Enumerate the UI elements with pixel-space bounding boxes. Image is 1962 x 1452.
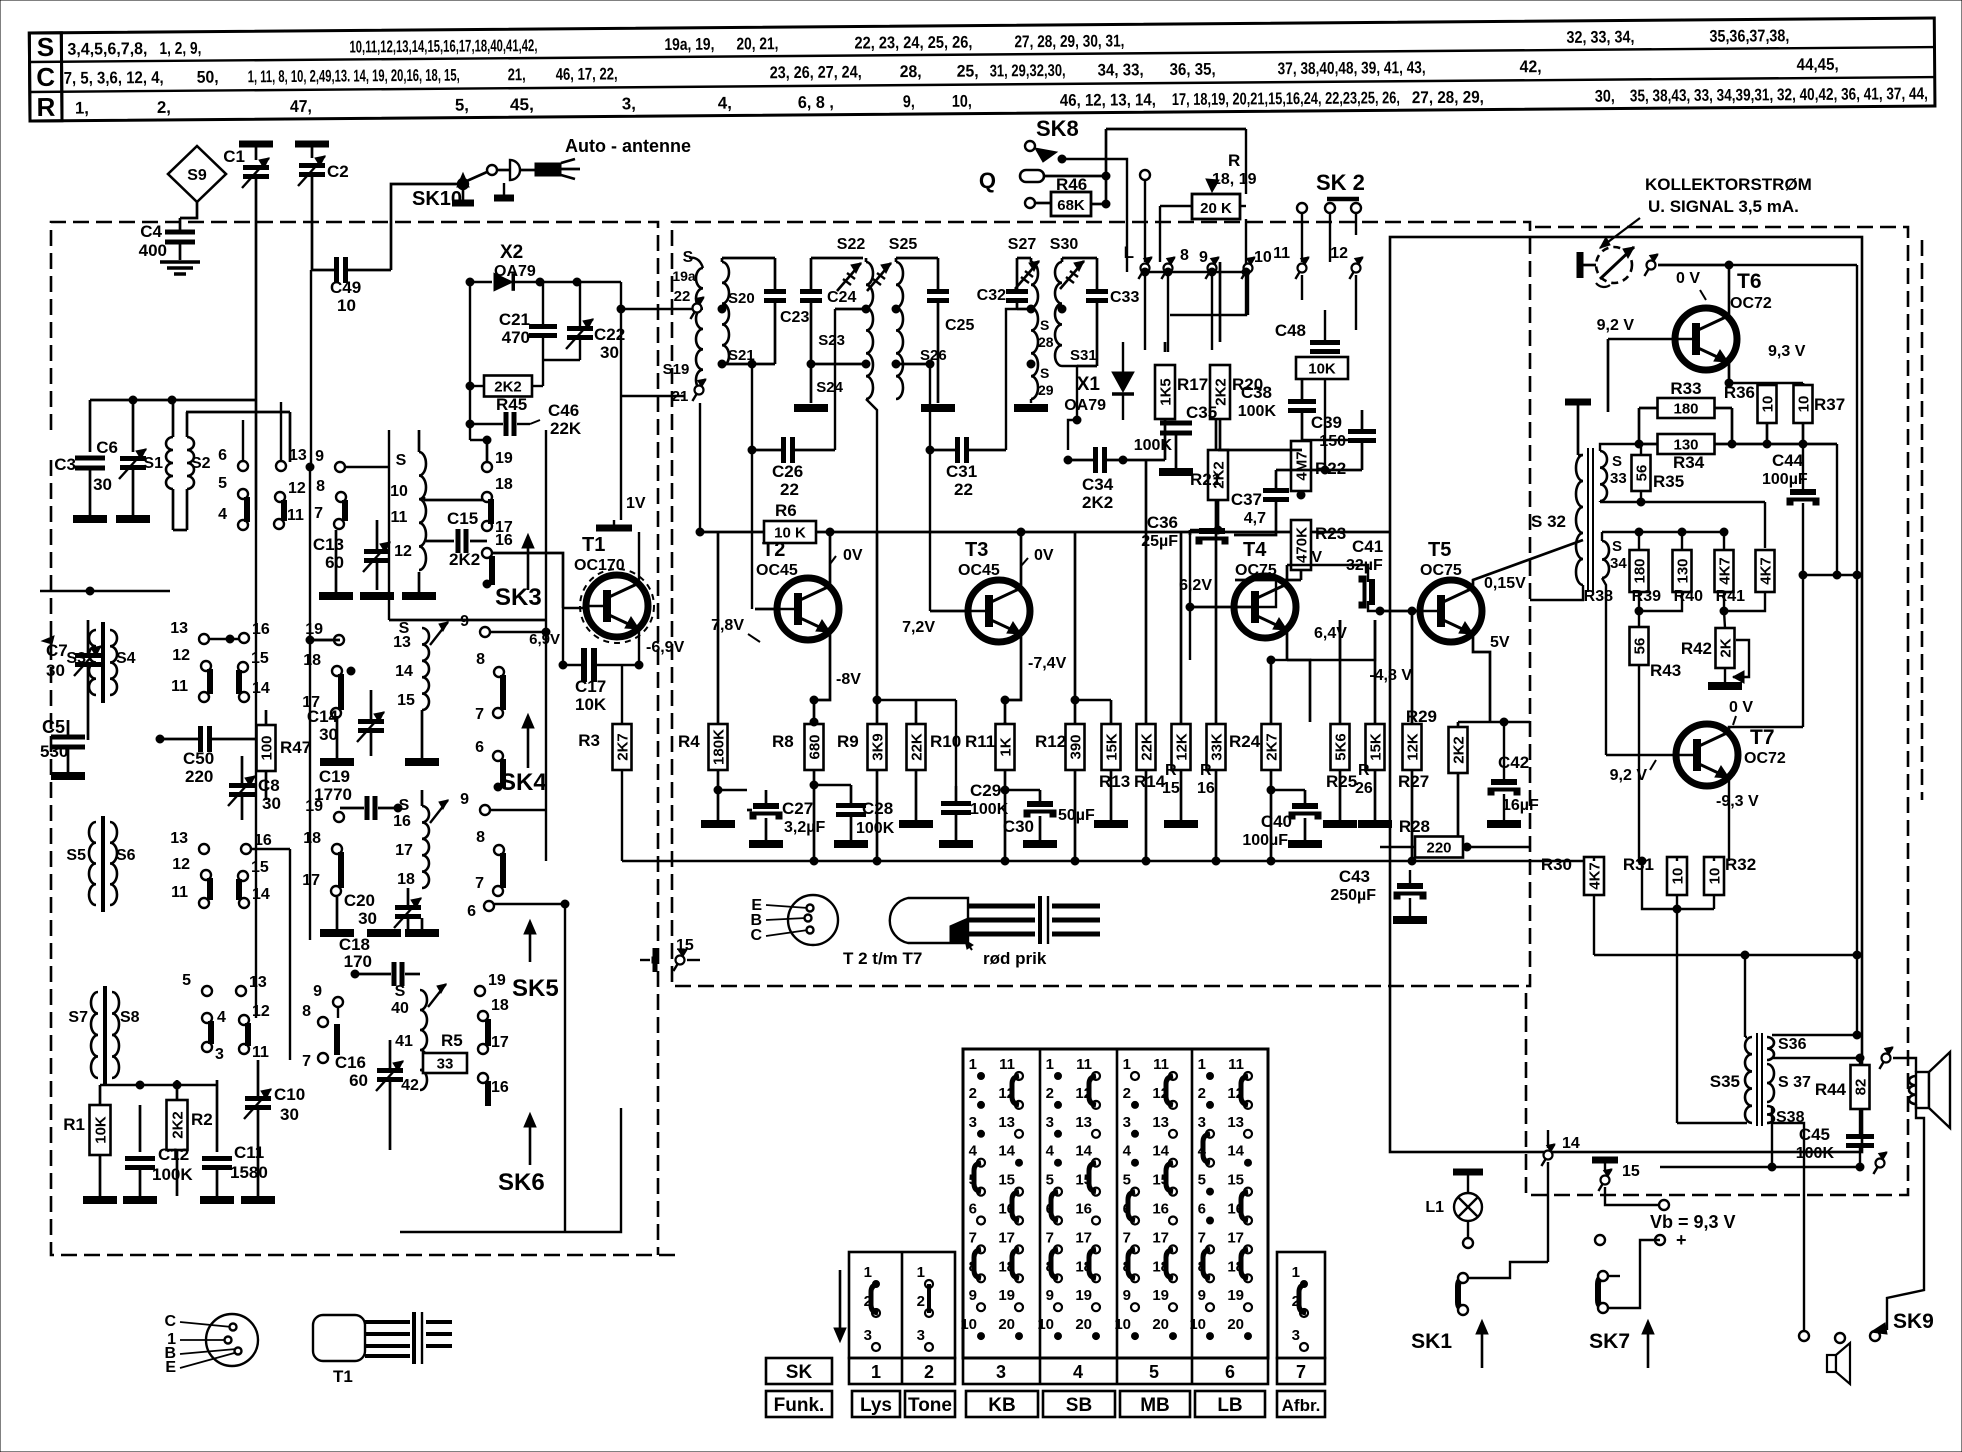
svg-text:L: L bbox=[1124, 243, 1134, 262]
svg-text:25,: 25, bbox=[957, 62, 979, 81]
svg-text:7: 7 bbox=[1296, 1362, 1306, 1382]
svg-text:17: 17 bbox=[395, 842, 413, 859]
capacitor C33 bbox=[1077, 258, 1139, 366]
svg-text:13: 13 bbox=[170, 830, 188, 847]
resistor R3 bbox=[578, 665, 631, 861]
svg-text:10: 10 bbox=[337, 296, 356, 315]
svg-text:2K7: 2K7 bbox=[1264, 733, 1281, 761]
svg-text:C33: C33 bbox=[1110, 289, 1139, 306]
svg-text:S19: S19 bbox=[663, 361, 690, 378]
capacitor C11 bbox=[200, 1080, 268, 1200]
svg-text:13: 13 bbox=[170, 620, 188, 637]
svg-text:46, 12, 13, 14,: 46, 12, 13, 14, bbox=[1060, 90, 1156, 110]
resistor R13 bbox=[1071, 696, 1130, 824]
svg-text:R17: R17 bbox=[1177, 375, 1208, 394]
svg-text:12: 12 bbox=[172, 856, 190, 873]
svg-text:34: 34 bbox=[1610, 555, 1627, 572]
svg-text:S6: S6 bbox=[116, 847, 136, 864]
svg-text:17: 17 bbox=[1075, 1229, 1092, 1246]
svg-text:LB: LB bbox=[1217, 1395, 1242, 1416]
svg-text:60: 60 bbox=[349, 1071, 368, 1090]
svg-text:11: 11 bbox=[252, 1044, 269, 1061]
svg-text:C48: C48 bbox=[1275, 321, 1306, 340]
svg-text:S4: S4 bbox=[116, 650, 136, 667]
svg-text:S3: S3 bbox=[66, 650, 86, 667]
svg-text:12K: 12K bbox=[1174, 733, 1191, 761]
svg-text:12: 12 bbox=[1330, 245, 1348, 262]
svg-text:S: S bbox=[395, 983, 406, 1000]
capacitor C42 bbox=[1458, 718, 1539, 824]
svg-text:3: 3 bbox=[996, 1362, 1006, 1382]
switch columns 1 2 box bbox=[849, 1252, 955, 1358]
svg-text:C20: C20 bbox=[344, 891, 375, 910]
svg-text:10,: 10, bbox=[952, 92, 972, 111]
wire verticals right of C44 bbox=[1836, 444, 1838, 575]
svg-text:6: 6 bbox=[1225, 1362, 1235, 1382]
svg-text:170: 170 bbox=[344, 952, 372, 971]
wires output area bbox=[1745, 1036, 1747, 1038]
svg-text:19a: 19a bbox=[672, 268, 696, 284]
svg-text:60: 60 bbox=[325, 553, 344, 572]
svg-text:1: 1 bbox=[1123, 1056, 1131, 1073]
svg-text:S23: S23 bbox=[818, 332, 845, 349]
svg-text:4K7: 4K7 bbox=[1587, 862, 1604, 890]
svg-text:4: 4 bbox=[1073, 1362, 1083, 1382]
svg-text:22K: 22K bbox=[909, 733, 926, 761]
svg-text:SK: SK bbox=[786, 1362, 813, 1383]
capacitor C17 bbox=[559, 608, 643, 714]
svg-text:Vb = 9,3 V: Vb = 9,3 V bbox=[1650, 1212, 1736, 1232]
svg-text:17: 17 bbox=[998, 1229, 1015, 1246]
svg-text:R3: R3 bbox=[578, 731, 600, 750]
svg-text:3K9: 3K9 bbox=[870, 733, 887, 761]
svg-text:18: 18 bbox=[303, 652, 321, 669]
svg-text:S 37: S 37 bbox=[1778, 1074, 1811, 1091]
contacts plus bbox=[1595, 1235, 1605, 1245]
resistor R22 bbox=[1291, 440, 1346, 495]
svg-text:S31: S31 bbox=[1070, 347, 1097, 364]
junction dots contact row bbox=[1141, 271, 1246, 273]
transistor T7 OC72 bbox=[1606, 699, 1803, 861]
svg-text:R23: R23 bbox=[1315, 524, 1346, 543]
capacitor C18 bbox=[339, 935, 420, 986]
contacts 4 3 12 11 row4 bbox=[202, 1009, 226, 1026]
resistor R12 bbox=[1035, 532, 1085, 861]
resistor R5 bbox=[423, 1031, 467, 1073]
svg-text:9: 9 bbox=[315, 448, 324, 465]
svg-text:10: 10 bbox=[1760, 396, 1777, 413]
resistor R47 bbox=[257, 710, 312, 800]
contacts 19 18 17 row3mid bbox=[305, 798, 344, 822]
resistor R4 bbox=[678, 532, 735, 824]
svg-text:180K: 180K bbox=[711, 729, 728, 765]
switch SK7 bbox=[1589, 1240, 1660, 1368]
svg-text:7: 7 bbox=[314, 505, 323, 522]
IF transformer S30 S31 bbox=[1050, 236, 1097, 450]
svg-text:13: 13 bbox=[289, 447, 307, 464]
svg-text:2K7: 2K7 bbox=[615, 733, 632, 761]
capacitor C38 bbox=[1238, 380, 1316, 440]
bus wire y861 extension to left box bbox=[622, 860, 672, 862]
svg-text:11: 11 bbox=[1273, 245, 1290, 262]
svg-text:3,2µF: 3,2µF bbox=[784, 819, 825, 836]
transformer S5 S6 bbox=[66, 816, 135, 912]
svg-text:17, 18,19, 20,21,15,16,24, 22,: 17, 18,19, 20,21,15,16,24, 22,23,25, 26, bbox=[1172, 88, 1400, 109]
svg-text:C8: C8 bbox=[258, 776, 280, 795]
diode X1 OA79 vertical bbox=[1064, 342, 1134, 420]
svg-text:R8: R8 bbox=[772, 732, 794, 751]
svg-text:C2: C2 bbox=[327, 162, 349, 181]
resistor R10 bbox=[877, 700, 961, 824]
svg-text:4: 4 bbox=[1046, 1143, 1055, 1160]
svg-text:6: 6 bbox=[218, 447, 227, 464]
svg-text:13: 13 bbox=[393, 634, 411, 651]
svg-text:0 V: 0 V bbox=[1676, 270, 1700, 287]
switch SK8 bbox=[1025, 116, 1246, 272]
svg-text:14: 14 bbox=[1562, 1135, 1580, 1152]
contacts 13 16 row2 bbox=[170, 620, 209, 644]
svg-text:R22: R22 bbox=[1315, 459, 1346, 478]
resistor R14 bbox=[1134, 460, 1166, 861]
svg-text:R36: R36 bbox=[1724, 383, 1755, 402]
svg-text:SK5: SK5 bbox=[512, 975, 559, 1002]
contact 14 bbox=[1541, 1130, 1579, 1262]
svg-text:10K: 10K bbox=[575, 695, 607, 714]
transformer S3 S4 bbox=[66, 622, 135, 703]
svg-text:S9: S9 bbox=[187, 167, 207, 184]
svg-text:T1: T1 bbox=[333, 1367, 353, 1386]
svg-text:T7: T7 bbox=[1750, 726, 1775, 749]
svg-text:S35: S35 bbox=[1710, 1072, 1740, 1091]
svg-text:16µF: 16µF bbox=[1502, 797, 1539, 814]
IF coil S 13 14 15 bbox=[393, 620, 448, 710]
svg-text:33: 33 bbox=[437, 1056, 454, 1073]
svg-text:Tone: Tone bbox=[908, 1395, 952, 1416]
switch SK2 bbox=[1297, 170, 1365, 262]
svg-text:SK7: SK7 bbox=[1589, 1330, 1630, 1353]
svg-text:21,: 21, bbox=[508, 65, 526, 84]
svg-text:4: 4 bbox=[218, 506, 227, 523]
wire stubs IF to bus bbox=[699, 403, 701, 532]
output transformer S35 S36 S37 S38 bbox=[1710, 1033, 1811, 1126]
svg-text:33: 33 bbox=[1610, 470, 1627, 487]
resistor R41 bbox=[1756, 550, 1775, 592]
speaker icon small bbox=[1827, 1343, 1850, 1384]
svg-text:27, 28, 29,: 27, 28, 29, bbox=[1412, 88, 1484, 108]
svg-text:390: 390 bbox=[1068, 734, 1085, 759]
resistor R1 bbox=[63, 1085, 117, 1200]
svg-text:S25: S25 bbox=[889, 236, 918, 253]
svg-text:T6: T6 bbox=[1737, 270, 1762, 293]
svg-text:R29: R29 bbox=[1406, 707, 1437, 726]
svg-text:S1: S1 bbox=[143, 455, 163, 472]
svg-text:C: C bbox=[750, 927, 762, 944]
svg-text:17: 17 bbox=[491, 1034, 509, 1051]
svg-text:MB: MB bbox=[1140, 1395, 1170, 1416]
wires right mid bbox=[1642, 861, 1714, 909]
svg-text:10: 10 bbox=[1189, 1316, 1206, 1333]
svg-text:C41: C41 bbox=[1352, 537, 1383, 556]
svg-text:1: 1 bbox=[917, 1264, 925, 1281]
svg-text:11: 11 bbox=[999, 1056, 1015, 1073]
capacitor C43 bbox=[1330, 867, 1427, 920]
capacitor C29 bbox=[916, 700, 1009, 844]
svg-text:R35: R35 bbox=[1653, 472, 1684, 491]
svg-text:11: 11 bbox=[1076, 1056, 1092, 1073]
capacitor C37 bbox=[1231, 470, 1289, 527]
svg-text:9: 9 bbox=[1199, 249, 1208, 266]
svg-text:10: 10 bbox=[960, 1316, 977, 1333]
svg-text:14: 14 bbox=[252, 886, 270, 903]
plug Q bbox=[979, 168, 1110, 193]
resistor R24 bbox=[1229, 656, 1287, 861]
svg-text:11: 11 bbox=[171, 678, 188, 695]
svg-text:C29: C29 bbox=[970, 781, 1001, 800]
svg-text:13: 13 bbox=[249, 974, 267, 991]
right outer dashed second line bbox=[1921, 240, 1924, 800]
svg-text:R1: R1 bbox=[63, 1115, 85, 1134]
svg-text:C36: C36 bbox=[1147, 513, 1178, 532]
svg-text:C32: C32 bbox=[977, 287, 1006, 304]
capacitor C23 bbox=[722, 258, 809, 450]
wire junction row y591 bbox=[40, 590, 170, 592]
IF coil S 10 11 12 bbox=[390, 430, 426, 570]
svg-text:T3: T3 bbox=[965, 539, 988, 561]
svg-text:1: 1 bbox=[864, 1264, 872, 1281]
svg-text:82: 82 bbox=[1853, 1079, 1870, 1096]
svg-text:6: 6 bbox=[1198, 1201, 1206, 1218]
svg-text:56: 56 bbox=[1632, 638, 1649, 655]
svg-text:100K: 100K bbox=[1238, 403, 1277, 420]
package T1 drawing bbox=[313, 1312, 452, 1386]
svg-text:16: 16 bbox=[1197, 780, 1215, 797]
svg-text:12: 12 bbox=[172, 647, 190, 664]
svg-text:C25: C25 bbox=[945, 317, 974, 334]
svg-text:R: R bbox=[36, 92, 55, 122]
resistor R2 bbox=[167, 1080, 213, 1196]
svg-text:13: 13 bbox=[1075, 1114, 1092, 1131]
table number band bbox=[766, 1358, 832, 1384]
contact 15 bottom left of middle box bbox=[640, 937, 700, 972]
svg-text:4,7: 4,7 bbox=[1244, 510, 1266, 527]
resistor R6 bbox=[696, 501, 1390, 543]
svg-text:4: 4 bbox=[217, 1009, 226, 1026]
svg-text:9: 9 bbox=[313, 983, 322, 1000]
svg-text:37, 38,40,48, 39, 41, 43,: 37, 38,40,48, 39, 41, 43, bbox=[1278, 58, 1426, 78]
svg-text:1: 1 bbox=[1046, 1056, 1054, 1073]
svg-text:100K: 100K bbox=[1134, 437, 1173, 454]
svg-text:180: 180 bbox=[1632, 558, 1649, 583]
svg-text:Afbr.: Afbr. bbox=[1282, 1396, 1321, 1415]
svg-text:25µF: 25µF bbox=[1141, 533, 1178, 550]
meter right contact bbox=[1644, 254, 1657, 276]
svg-text:2K2: 2K2 bbox=[1451, 736, 1468, 764]
svg-text:400: 400 bbox=[139, 241, 167, 260]
svg-text:22: 22 bbox=[954, 480, 973, 499]
svg-text:10: 10 bbox=[1796, 396, 1813, 413]
svg-text:0 V: 0 V bbox=[1729, 699, 1753, 716]
svg-text:C26: C26 bbox=[772, 462, 803, 481]
contacts 13 16 row3 bbox=[170, 830, 209, 854]
resistor R39 bbox=[1673, 550, 1692, 592]
svg-text:3: 3 bbox=[1123, 1114, 1131, 1131]
svg-text:9: 9 bbox=[460, 613, 469, 630]
svg-text:12: 12 bbox=[288, 480, 306, 497]
ground under C25 bbox=[921, 404, 955, 412]
svg-text:C43: C43 bbox=[1339, 867, 1370, 886]
table function labels bbox=[766, 1391, 832, 1417]
component index table bbox=[29, 17, 1935, 122]
svg-text:4,: 4, bbox=[718, 93, 732, 112]
svg-text:27, 28, 29, 30, 31,: 27, 28, 29, 30, 31, bbox=[1014, 31, 1124, 51]
ground bars under C3 C6 bbox=[73, 515, 107, 523]
svg-text:11: 11 bbox=[391, 509, 408, 526]
svg-text:C12: C12 bbox=[158, 1145, 189, 1164]
svg-text:100K: 100K bbox=[856, 820, 895, 837]
svg-text:26: 26 bbox=[1355, 780, 1373, 797]
svg-text:10,11,12,13,14,15,16,17,18,40,: 10,11,12,13,14,15,16,17,18,40,41,42, bbox=[349, 36, 537, 56]
svg-text:SK10: SK10 bbox=[412, 188, 462, 210]
resistor R35 bbox=[1632, 444, 1685, 502]
capacitor C35 bbox=[1134, 403, 1217, 472]
svg-text:1: 1 bbox=[1198, 1056, 1206, 1073]
svg-text:7: 7 bbox=[1123, 1229, 1131, 1246]
svg-text:-7,4V: -7,4V bbox=[1028, 655, 1067, 672]
svg-text:130: 130 bbox=[1673, 437, 1698, 454]
svg-text:20: 20 bbox=[1152, 1316, 1169, 1333]
wire into S19 taps bbox=[621, 308, 692, 310]
svg-text:R41: R41 bbox=[1716, 588, 1745, 605]
transistor pinout circle E B C bbox=[750, 895, 838, 945]
svg-text:50,: 50, bbox=[197, 68, 219, 87]
svg-text:20 K: 20 K bbox=[1200, 200, 1232, 217]
svg-text:10: 10 bbox=[1670, 868, 1687, 885]
svg-text:C46: C46 bbox=[548, 401, 579, 420]
switch column 2 bbox=[917, 1264, 933, 1351]
svg-text:28,: 28, bbox=[900, 62, 922, 81]
svg-text:2K2: 2K2 bbox=[494, 379, 522, 396]
svg-text:19: 19 bbox=[305, 621, 323, 638]
svg-text:22K: 22K bbox=[1139, 733, 1156, 761]
arrow next to column 1 bbox=[834, 1270, 846, 1342]
svg-text:7: 7 bbox=[475, 706, 484, 723]
svg-text:250µF: 250µF bbox=[1330, 887, 1376, 904]
wire horizontals left box bottom bbox=[100, 1084, 217, 1086]
svg-text:KOLLEKTORSTRØM: KOLLEKTORSTRØM bbox=[1645, 175, 1812, 194]
transistor T6 OC72 bbox=[1597, 265, 1806, 412]
resistor R11 bbox=[965, 722, 1015, 861]
svg-text:7: 7 bbox=[475, 875, 484, 892]
svg-text:R30: R30 bbox=[1541, 855, 1572, 874]
svg-text:45,: 45, bbox=[510, 95, 534, 114]
svg-text:C3: C3 bbox=[54, 455, 76, 474]
svg-text:6, 8 ,: 6, 8 , bbox=[798, 93, 834, 112]
svg-text:6,4V: 6,4V bbox=[1314, 625, 1347, 642]
svg-text:17: 17 bbox=[1227, 1229, 1244, 1246]
transistor pinout circle C 1 B E bbox=[164, 1313, 258, 1376]
svg-text:20: 20 bbox=[998, 1316, 1015, 1333]
AGC resistor R20 bbox=[1210, 262, 1263, 450]
svg-text:C5: C5 bbox=[42, 717, 65, 737]
svg-text:3: 3 bbox=[1198, 1114, 1206, 1131]
svg-text:OC45: OC45 bbox=[958, 562, 1000, 579]
svg-text:42,: 42, bbox=[1520, 57, 1542, 76]
svg-text:S: S bbox=[37, 32, 55, 62]
contacts 9 8 7 row3mid bbox=[460, 791, 490, 815]
svg-text:C: C bbox=[36, 62, 55, 92]
contacts 5 13 row4 bbox=[182, 972, 212, 996]
svg-text:C30: C30 bbox=[1003, 817, 1034, 836]
svg-text:1K5: 1K5 bbox=[1158, 378, 1175, 406]
svg-text:20: 20 bbox=[1227, 1316, 1244, 1333]
ground bars C13 area bbox=[319, 592, 353, 600]
svg-text:9,: 9, bbox=[903, 92, 915, 111]
svg-text:R21: R21 bbox=[1190, 470, 1221, 489]
svg-text:36, 35,: 36, 35, bbox=[1170, 60, 1216, 79]
wire T4 T5 interstage bbox=[1189, 530, 1191, 607]
trimmer C13 bbox=[313, 520, 390, 590]
svg-text:C17: C17 bbox=[575, 677, 606, 696]
svg-text:C: C bbox=[164, 1313, 176, 1330]
switch column 3 bbox=[960, 1056, 1023, 1340]
svg-text:R24: R24 bbox=[1229, 732, 1261, 751]
svg-text:R42: R42 bbox=[1681, 639, 1712, 658]
contact row L 8 9 10 11 12 bbox=[1124, 243, 1363, 279]
svg-text:18: 18 bbox=[397, 871, 415, 888]
svg-text:13: 13 bbox=[1152, 1114, 1169, 1131]
svg-text:14: 14 bbox=[395, 663, 413, 680]
svg-text:14: 14 bbox=[1075, 1143, 1092, 1160]
svg-text:56: 56 bbox=[1634, 465, 1651, 482]
svg-text:Funk.: Funk. bbox=[774, 1395, 825, 1416]
svg-text:16: 16 bbox=[393, 813, 411, 830]
svg-text:5: 5 bbox=[218, 475, 227, 492]
svg-text:R12: R12 bbox=[1035, 732, 1066, 751]
left box inner solid corner bbox=[400, 1108, 621, 1232]
svg-text:3: 3 bbox=[864, 1327, 872, 1344]
svg-text:19: 19 bbox=[495, 450, 513, 467]
svg-text:10K: 10K bbox=[93, 1116, 110, 1144]
svg-text:S2: S2 bbox=[191, 455, 211, 472]
svg-text:6: 6 bbox=[467, 903, 476, 920]
svg-text:11: 11 bbox=[1228, 1056, 1244, 1073]
capacitor C45 bbox=[1796, 1125, 1874, 1171]
capacitor C32 bbox=[977, 258, 1035, 450]
svg-text:R6: R6 bbox=[775, 501, 797, 520]
svg-text:C23: C23 bbox=[780, 309, 809, 326]
trimmer C6 bbox=[93, 400, 146, 515]
svg-text:10: 10 bbox=[1707, 868, 1724, 885]
long vertical buses left box bbox=[545, 430, 547, 641]
svg-text:2K2: 2K2 bbox=[1213, 378, 1230, 406]
svg-text:30,: 30, bbox=[1595, 87, 1615, 106]
svg-text:C34: C34 bbox=[1082, 475, 1114, 494]
svg-text:Lys: Lys bbox=[860, 1395, 892, 1416]
svg-text:T5: T5 bbox=[1428, 539, 1451, 561]
svg-text:OC45: OC45 bbox=[756, 562, 798, 579]
T1 area wires bbox=[563, 607, 587, 609]
wires from contact row bbox=[1144, 275, 1146, 350]
svg-text:3,4,5,6,7,8,: 3,4,5,6,7,8, bbox=[67, 39, 147, 59]
transistor T1 OC170 bbox=[620, 282, 622, 430]
IF transformer S22 S23 S24 bbox=[811, 236, 877, 532]
right solid box bbox=[1390, 237, 1862, 1152]
svg-text:R25: R25 bbox=[1326, 772, 1357, 791]
svg-text:46, 17, 22,: 46, 17, 22, bbox=[556, 64, 618, 83]
svg-text:13: 13 bbox=[1227, 1114, 1244, 1131]
svg-text:5: 5 bbox=[1149, 1362, 1159, 1382]
switch column 5 bbox=[1114, 1056, 1177, 1340]
